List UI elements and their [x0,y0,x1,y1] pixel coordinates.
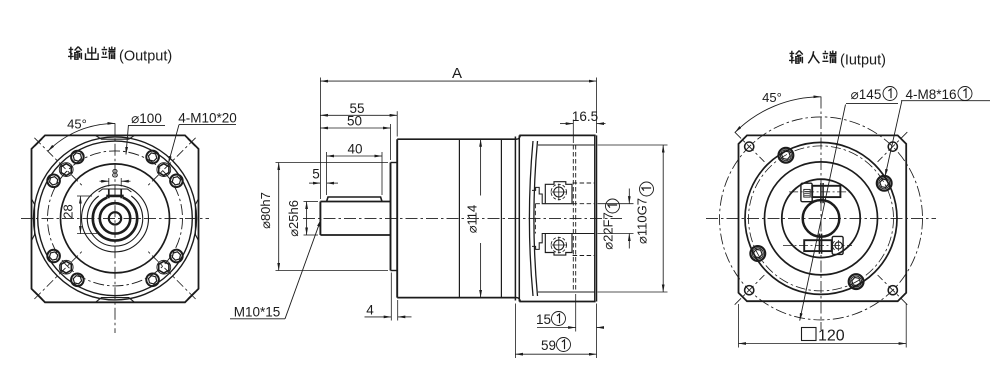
svg-text:4-M8*16: 4-M8*16 [905,87,956,102]
svg-text:4-M10*20: 4-M10*20 [178,111,237,126]
svg-text:45°: 45° [762,90,782,105]
svg-text:40: 40 [347,141,362,156]
svg-text:8: 8 [112,167,119,181]
svg-text:120: 120 [818,327,845,344]
svg-text:28: 28 [61,204,76,218]
svg-text:⌀80h7: ⌀80h7 [258,192,273,229]
svg-text:⌀25h6: ⌀25h6 [286,200,301,237]
svg-text:A: A [452,65,462,82]
svg-text:M10*15: M10*15 [234,305,281,320]
svg-text:(Iutput): (Iutput) [840,53,886,69]
svg-text:(Output): (Output) [119,49,172,65]
svg-text:15: 15 [536,312,551,327]
svg-text:45°: 45° [67,117,87,132]
svg-text:16.5: 16.5 [572,109,598,124]
svg-text:⌀114: ⌀114 [465,205,480,234]
svg-text:4: 4 [366,302,374,317]
svg-text:⌀145: ⌀145 [851,87,882,102]
svg-text:⌀22F7: ⌀22F7 [601,212,616,249]
svg-text:⌀100: ⌀100 [131,111,162,126]
svg-text:59: 59 [541,338,556,353]
svg-text:5: 5 [312,167,320,182]
svg-text:⌀110G7: ⌀110G7 [635,198,650,244]
svg-text:50: 50 [347,114,362,129]
